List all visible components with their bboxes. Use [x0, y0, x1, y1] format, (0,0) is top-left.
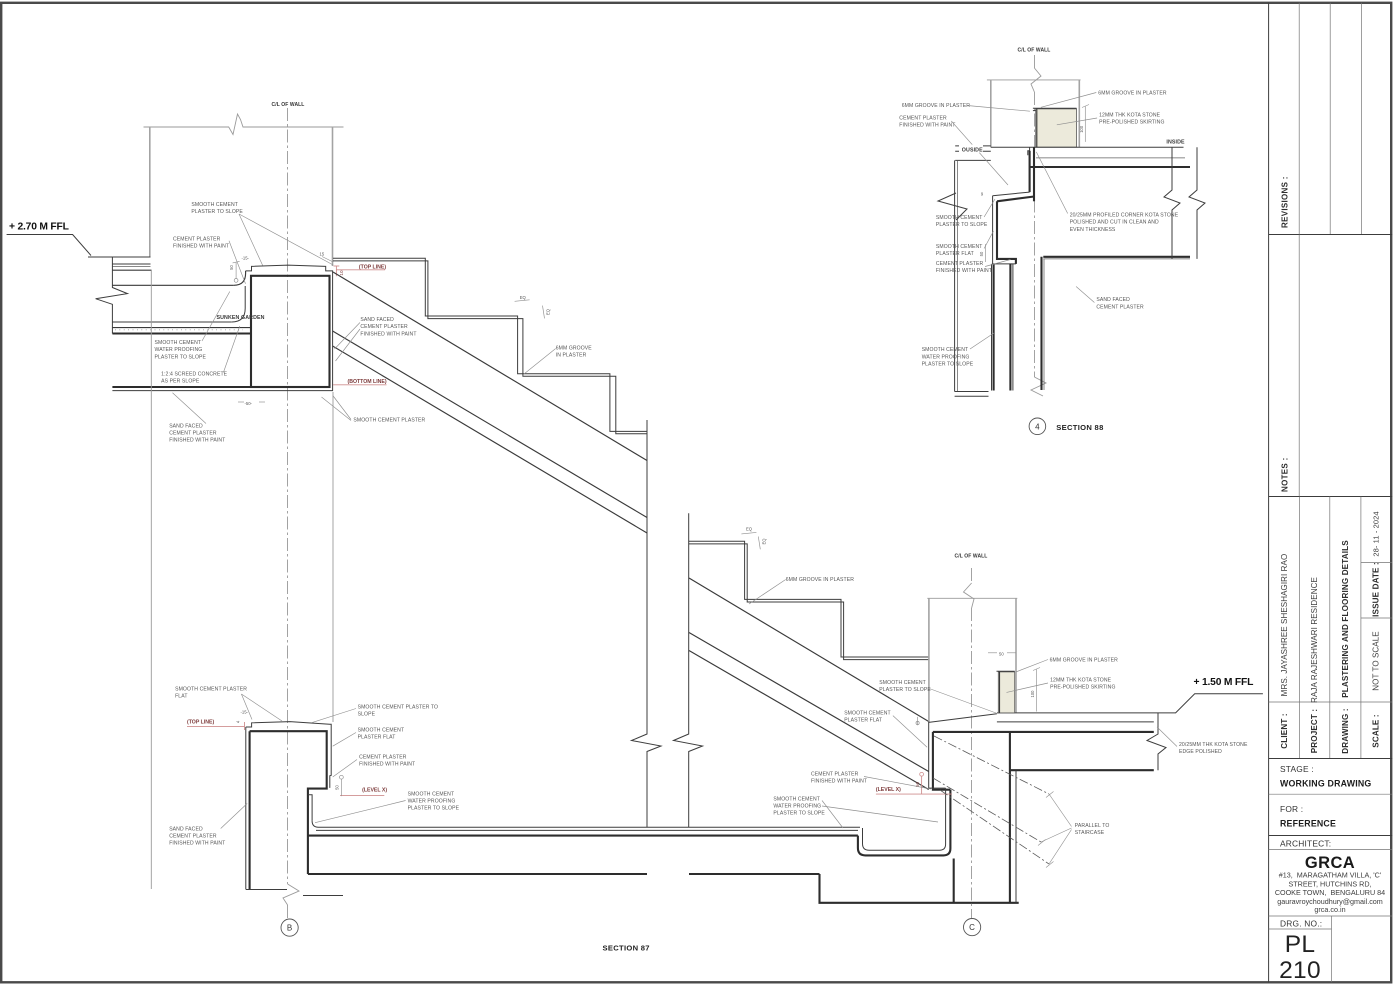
svg-text:PL: PL [1285, 931, 1316, 958]
svg-text:AS PER SLOPE: AS PER SLOPE [161, 379, 200, 385]
upper wall left face [149, 127, 151, 257]
wall C top edge [927, 597, 1017, 599]
section break line left [632, 420, 662, 827]
revisions table [1298, 3, 1300, 235]
svg-text:1:2:4 SCREED CONCRETE: 1:2:4 SCREED CONCRETE [161, 371, 228, 377]
floor at LEVEL X with cove [308, 795, 312, 821]
svg-text:FINISHED WITH PAINT: FINISHED WITH PAINT [811, 779, 867, 785]
svg-text:OUSIDE: OUSIDE [962, 147, 983, 153]
wall C left face thick to LEVEL X notch [933, 732, 951, 790]
svg-text:C/L OF WALL: C/L OF WALL [272, 102, 305, 108]
svg-text:B: B [287, 924, 292, 933]
svg-text:PLASTER FLAT: PLASTER FLAT [358, 735, 396, 741]
svg-text:CEMENT PLASTER: CEMENT PLASTER [169, 834, 217, 840]
svg-text:210: 210 [1279, 957, 1321, 984]
svg-text:CEMENT PLASTER: CEMENT PLASTER [169, 431, 217, 437]
svg-text:SECTION 88: SECTION 88 [1056, 423, 1103, 432]
slab right break [1147, 713, 1166, 770]
slab bottom thick (88) [1043, 256, 1190, 258]
svg-text:SMOOTH CEMENT: SMOOTH CEMENT [936, 215, 983, 221]
outside ledge lines [955, 145, 991, 147]
svg-text:-50-: -50- [245, 401, 253, 406]
steps inner plaster line [333, 261, 647, 434]
floor top line inside [991, 146, 1184, 148]
svg-text:SMOOTH CEMENT: SMOOTH CEMENT [844, 710, 891, 716]
svg-text:STAIRCASE: STAIRCASE [1075, 830, 1105, 836]
svg-text:INSIDE: INSIDE [1166, 139, 1185, 145]
drain tub inner [863, 788, 946, 850]
svg-text:EVEN THICKNESS: EVEN THICKNESS [1070, 227, 1116, 233]
svg-text:20/25MM THK KOTA STONE: 20/25MM THK KOTA STONE [1179, 742, 1248, 748]
svg-text:WORKING DRAWING: WORKING DRAWING [1280, 779, 1371, 789]
waterproofing second line [316, 829, 858, 831]
svg-text:COOKE TOWN, BENGALURU 84: COOKE TOWN, BENGALURU 84 [1275, 888, 1385, 897]
drawing number box [1269, 915, 1393, 917]
steps outer line [333, 258, 647, 431]
svg-text:PLASTER FLAT: PLASTER FLAT [936, 251, 974, 257]
sunken garden screed line with cove [112, 321, 231, 323]
wall C right faces below floor [1009, 732, 1011, 903]
curb top profile (TOP LINE level) [246, 722, 331, 788]
svg-text:FINISHED WITH PAINT: FINISHED WITH PAINT [169, 438, 225, 444]
svg-text:EQ: EQ [546, 308, 551, 315]
centerline wall C [971, 568, 973, 583]
svg-text:PARALLEL TO: PARALLEL TO [1075, 823, 1110, 829]
wall corner thick verticals [1029, 151, 1031, 192]
svg-text:-15-: -15- [241, 709, 249, 714]
soffit diagonal [689, 633, 929, 772]
svg-text:PLASTER TO SLOPE: PLASTER TO SLOPE [922, 362, 974, 368]
corner groove notch below floor [1028, 147, 1030, 155]
stipple dots in slab [115, 329, 243, 331]
drain tub outer [858, 790, 951, 856]
svg-text:FINISHED WITH PAINT: FINISHED WITH PAINT [899, 123, 955, 129]
svg-text:WATER PROOFING: WATER PROOFING [155, 347, 203, 353]
svg-text:9: 9 [981, 192, 984, 197]
stair soffit plaster diagonal [333, 346, 647, 533]
stair soffit diagonal [333, 331, 647, 518]
bottom outside ledge [955, 391, 989, 393]
svg-text:NOTES :: NOTES : [1281, 457, 1290, 492]
svg-text:50: 50 [229, 265, 234, 270]
skirting kota stone (88) [1036, 109, 1077, 147]
svg-text:EQ: EQ [746, 527, 753, 532]
svg-text:6MM GROOVE IN PLASTER: 6MM GROOVE IN PLASTER [1050, 657, 1119, 663]
svg-text:4: 4 [1035, 422, 1040, 431]
svg-text:+ 1.50 M FFL: + 1.50 M FFL [1194, 677, 1254, 688]
svg-text:PLASTER TO SLOPE: PLASTER TO SLOPE [191, 209, 243, 215]
svg-text:REVISIONS :: REVISIONS : [1281, 176, 1290, 228]
svg-text:CEMENT PLASTER: CEMENT PLASTER [359, 754, 407, 760]
red LEVEL X annotation (C) [876, 793, 952, 795]
upper wall top edge with break [144, 114, 344, 135]
svg-text:MRS. JAYASHREE SHESHAGIRI RAO: MRS. JAYASHREE SHESHAGIRI RAO [1280, 554, 1289, 697]
svg-text:PLASTER TO SLOPE: PLASTER TO SLOPE [936, 222, 988, 228]
stair nosing diagonal (top line) [333, 272, 647, 461]
wall B outer grey faces [150, 271, 152, 890]
section break line right [674, 513, 703, 827]
slab top thick (88) [1030, 166, 1190, 168]
svg-text:FOR :: FOR : [1280, 804, 1303, 814]
svg-text:PLASTER TO SLOPE: PLASTER TO SLOPE [408, 806, 460, 812]
svg-text:SUNKEN GARDEN: SUNKEN GARDEN [217, 315, 265, 321]
svg-text:SMOOTH CEMENT: SMOOTH CEMENT [408, 791, 455, 797]
svg-text:ARCHITECT:: ARCHITECT: [1280, 839, 1331, 849]
svg-text:4: 4 [236, 720, 241, 723]
svg-text:(BOTTOM LINE): (BOTTOM LINE) [348, 379, 387, 385]
dim 100 (88) [1084, 106, 1086, 142]
svg-text:PLASTER TO SLOPE: PLASTER TO SLOPE [879, 687, 931, 693]
svg-text:EQ: EQ [520, 295, 527, 300]
svg-text:grca.co.in: grca.co.in [1314, 905, 1345, 914]
floor slab bottom dark [308, 873, 647, 875]
svg-text:SLOPE: SLOPE [358, 712, 376, 718]
steps inner plaster line [689, 544, 929, 660]
svg-text:C/L OF WALL: C/L OF WALL [955, 554, 988, 560]
nosing diagonal [689, 578, 929, 722]
svg-text:SMOOTH CEMENT: SMOOTH CEMENT [155, 340, 202, 346]
svg-text:SMOOTH CEMENT: SMOOTH CEMENT [358, 728, 405, 734]
svg-text:CEMENT PLASTER: CEMENT PLASTER [173, 236, 221, 242]
svg-text:10: 10 [339, 270, 344, 276]
architect box [1269, 849, 1393, 851]
svg-text:CEMENT PLASTER: CEMENT PLASTER [360, 324, 408, 330]
svg-text:SMOOTH CEMENT: SMOOTH CEMENT [936, 244, 983, 250]
small dim tick (C curb) [917, 717, 919, 725]
svg-text:C/L OF WALL: C/L OF WALL [1018, 48, 1051, 54]
svg-text:-15-: -15- [242, 255, 250, 260]
svg-text:CLIENT :: CLIENT : [1280, 713, 1289, 748]
dash-dot parallel line 2 [933, 778, 1041, 842]
sloped plaster outer [993, 192, 1030, 196]
svg-text:POLISHED AND CUT IN CLEAN AND: POLISHED AND CUT IN CLEAN AND [1070, 220, 1159, 226]
svg-text:STREET, HUTCHINS RD,: STREET, HUTCHINS RD, [1288, 879, 1371, 888]
svg-text:100: 100 [1079, 125, 1084, 133]
upper wall right face [332, 127, 334, 266]
svg-text:SAND FACED: SAND FACED [169, 826, 203, 832]
dim 100 skirting height [1036, 669, 1038, 711]
wall C left stem bottom [953, 859, 955, 903]
kota stone bottom line [997, 721, 1154, 723]
step profile outer [993, 196, 1016, 264]
svg-text:C: C [969, 923, 975, 932]
svg-text:FINISHED WITH PAINT: FINISHED WITH PAINT [173, 244, 229, 250]
grid bubble B [281, 919, 298, 936]
svg-text:DRAWING :: DRAWING : [1341, 708, 1350, 753]
svg-text:SMOOTH CEMENT: SMOOTH CEMENT [922, 347, 969, 353]
floor line +2.70 left of wall [88, 256, 151, 258]
wall C left plaster thin [929, 722, 946, 789]
title block frame [1269, 3, 1393, 984]
stage box [1269, 793, 1393, 795]
sloped plaster inner [997, 197, 1034, 202]
svg-text:SAND FACED: SAND FACED [169, 423, 203, 429]
svg-text:PLASTER TO SLOPE: PLASTER TO SLOPE [773, 811, 825, 817]
svg-text:FINISHED WITH PAINT: FINISHED WITH PAINT [360, 331, 416, 337]
wall stem faces below step [991, 264, 993, 391]
red dim 50 (C) [920, 772, 924, 776]
wall bottom break [246, 889, 287, 891]
svg-text:PLASTERING AND FLOORING DETAIL: PLASTERING AND FLOORING DETAILS [1341, 540, 1350, 698]
svg-text:ISSUE DATE :: ISSUE DATE : [1372, 562, 1381, 617]
svg-text:EQ: EQ [762, 538, 767, 545]
svg-text:EDGE POLISHED: EDGE POLISHED [1179, 749, 1222, 755]
svg-text:FINISHED WITH PAINT: FINISHED WITH PAINT [359, 762, 415, 768]
kota floor bottom line [1036, 157, 1185, 159]
svg-text:(TOP LINE): (TOP LINE) [187, 720, 214, 726]
red top line annotation [336, 269, 385, 271]
svg-text:PROJECT :: PROJECT : [1310, 709, 1319, 754]
svg-text:FINISHED WITH PAINT: FINISHED WITH PAINT [936, 268, 992, 274]
svg-text:NOT TO SCALE: NOT TO SCALE [1372, 631, 1381, 690]
svg-text:RAJA RAJESHWARI RESIDENCE: RAJA RAJESHWARI RESIDENCE [1310, 577, 1319, 703]
svg-text:STAGE :: STAGE : [1280, 764, 1314, 774]
svg-text:SMOOTH CEMENT: SMOOTH CEMENT [879, 680, 926, 686]
svg-text:DRG. NO.:: DRG. NO.: [1280, 919, 1322, 929]
steps outer line [689, 541, 929, 657]
svg-text:SAND FACED: SAND FACED [360, 317, 394, 323]
svg-text:SMOOTH CEMENT PLASTER TO: SMOOTH CEMENT PLASTER TO [358, 704, 439, 710]
for box [1269, 835, 1393, 837]
svg-text:CEMENT PLASTER: CEMENT PLASTER [811, 771, 859, 777]
svg-text:REFERENCE: REFERENCE [1280, 819, 1336, 829]
svg-text:SMOOTH CEMENT PLASTER: SMOOTH CEMENT PLASTER [175, 687, 247, 693]
svg-text:+ 2.70 M FFL: + 2.70 M FFL [9, 222, 69, 233]
svg-text:6MM GROOVE: 6MM GROOVE [556, 346, 593, 352]
svg-text:WATER PROOFING: WATER PROOFING [922, 354, 970, 360]
leaders [239, 214, 263, 266]
svg-text:SMOOTH CEMENT PLASTER: SMOOTH CEMENT PLASTER [353, 418, 425, 424]
dim 50 with circle (curb height) [235, 263, 237, 279]
curb left faces [245, 727, 247, 890]
svg-text:6MM GROOVE IN PLASTER: 6MM GROOVE IN PLASTER [1098, 90, 1167, 96]
footing step [820, 874, 1019, 903]
svg-text:SECTION 87: SECTION 87 [603, 944, 650, 953]
red bottom line annotation [333, 384, 387, 386]
svg-text:WATER PROOFING: WATER PROOFING [408, 799, 456, 805]
svg-text:6MM GROOVE IN PLASTER: 6MM GROOVE IN PLASTER [786, 577, 855, 583]
dash-dot parallel line 1 [934, 736, 1049, 794]
slab right break zigzags [1164, 147, 1180, 259]
svg-text:SMOOTH CEMENT: SMOOTH CEMENT [191, 202, 238, 208]
beam soffit line extended [112, 386, 251, 388]
svg-text:PRE-POLISHED SKIRTING: PRE-POLISHED SKIRTING [1050, 685, 1115, 691]
centerline break at bottom [283, 884, 299, 905]
svg-text:SCALE :: SCALE : [1372, 714, 1381, 747]
centerline of wall B [287, 108, 289, 884]
sunken slab lines [112, 327, 250, 329]
curb top sloped (stair side) [929, 714, 997, 723]
outside face verticals with break [954, 160, 956, 391]
svg-text:#13, MARAGATHAM VILLA, 'C': #13, MARAGATHAM VILLA, 'C' [1279, 871, 1382, 880]
centerline (88) with breaks [1033, 55, 1035, 68]
floor slab edge lines left of wall [112, 263, 150, 265]
svg-text:(LEVEL X): (LEVEL X) [876, 787, 901, 793]
beam (dark rectangle) [251, 276, 330, 387]
curb plaster profile over beam [112, 265, 332, 391]
sunken garden waterproof floor with cove [112, 284, 233, 286]
svg-text:15: 15 [320, 252, 325, 257]
svg-text:FLAT: FLAT [175, 694, 187, 700]
curb beam top and right (thick) [250, 731, 327, 874]
svg-text:12MM THK KOTA STONE: 12MM THK KOTA STONE [1050, 677, 1112, 683]
svg-text:WATER PROOFING: WATER PROOFING [773, 804, 821, 810]
project info table [1299, 497, 1301, 759]
svg-text:IN PLASTER: IN PLASTER [556, 353, 587, 359]
floor top +1.50 with FFL leader [997, 694, 1263, 713]
dash-dot parallel line 3 [940, 790, 1049, 864]
svg-text:(TOP LINE): (TOP LINE) [359, 264, 386, 270]
dim 50 stem [985, 244, 987, 262]
soffit plaster diagonal [689, 651, 929, 790]
inside wall corner below slab [1040, 257, 1042, 390]
svg-text:GRCA: GRCA [1305, 854, 1355, 872]
wall faces (88) [990, 80, 992, 147]
sunken garden left wall face with break [96, 257, 128, 334]
svg-text:FINISHED WITH PAINT: FINISHED WITH PAINT [169, 841, 225, 847]
grid bubble C [964, 919, 981, 936]
svg-text:CEMENT PLASTER: CEMENT PLASTER [1096, 304, 1144, 310]
svg-text:50: 50 [999, 651, 1004, 656]
slab bottom thick [1011, 769, 1154, 771]
section bubble 4 [1029, 418, 1046, 435]
floor slab top dark [308, 835, 858, 837]
svg-text:CEMENT PLASTER: CEMENT PLASTER [936, 261, 984, 267]
red top line annotation (B) [187, 726, 245, 728]
svg-text:CEMENT PLASTER: CEMENT PLASTER [899, 116, 947, 122]
svg-text:SAND FACED: SAND FACED [1096, 297, 1130, 303]
grey dim 50 (B) [340, 775, 344, 779]
svg-text:PLASTER TO SLOPE: PLASTER TO SLOPE [155, 354, 207, 360]
svg-text:50: 50 [335, 785, 340, 790]
svg-text:PLASTER FLAT: PLASTER FLAT [844, 718, 882, 724]
slab top thick [933, 731, 1154, 733]
step profile inner thick [997, 201, 1016, 264]
svg-text:SMOOTH CEMENT: SMOOTH CEMENT [773, 796, 820, 802]
leader for +2.70 FFL [7, 235, 91, 256]
svg-text:28- 11 - 2024: 28- 11 - 2024 [1372, 511, 1381, 556]
svg-text:20/25MM PROFILED CORNER KOTA S: 20/25MM PROFILED CORNER KOTA STONE [1070, 213, 1179, 219]
svg-text:(LEVEL X): (LEVEL X) [362, 787, 387, 793]
skirting kota stone (C) [998, 672, 1014, 713]
notes box [1298, 235, 1300, 497]
wall C faces grey [928, 598, 930, 722]
wall top edge (88) [987, 79, 1081, 81]
svg-text:12MM THK KOTA STONE: 12MM THK KOTA STONE [1099, 112, 1161, 118]
svg-text:100: 100 [1030, 690, 1035, 698]
svg-text:6MM GROOVE IN PLASTER: 6MM GROOVE IN PLASTER [902, 103, 971, 109]
red LEVEL X annotation (B) [340, 795, 384, 797]
svg-text:50: 50 [979, 251, 984, 256]
svg-text:PRE-POLISHED SKIRTING: PRE-POLISHED SKIRTING [1099, 120, 1164, 126]
